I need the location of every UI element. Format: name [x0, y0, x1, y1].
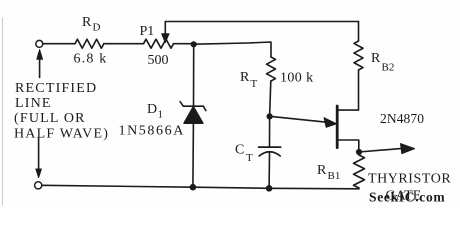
wire RT to node B [270, 81, 271, 116]
potentiometer P1 [144, 39, 174, 48]
capacitor CT [259, 147, 281, 156]
label RB1 [317, 163, 340, 182]
svg-text:C: C [235, 143, 244, 158]
svg-text:SeekIC.com: SeekIC.com [369, 190, 445, 205]
wire node A down to D1 [193, 44, 195, 106]
label D1 [147, 102, 163, 121]
svg-text:T: T [251, 78, 258, 90]
wire P1 to node A [174, 43, 194, 45]
transistor Q1 base bar [336, 106, 339, 148]
svg-text:6.8 k: 6.8 k [74, 52, 108, 67]
wire node B to CT [269, 116, 271, 146]
scan edge line [2, 18, 4, 205]
junction bottom CT [266, 185, 273, 192]
label RB2 [371, 51, 394, 74]
resistor RT [267, 57, 276, 81]
svg-text:LINE: LINE [15, 96, 52, 111]
junction node B [267, 113, 273, 119]
resistor RB2 [354, 41, 363, 70]
svg-text:500: 500 [148, 53, 169, 68]
svg-text:B1: B1 [328, 170, 341, 182]
svg-text:T: T [246, 152, 253, 164]
terminal bottom [35, 182, 42, 189]
svg-text:R: R [371, 51, 381, 66]
svg-text:R: R [240, 70, 250, 85]
emitter arrowhead Q1 [324, 118, 337, 128]
resistor RB1 [354, 155, 365, 188]
terminal top [36, 40, 43, 47]
zener diode D1 [180, 102, 206, 124]
svg-text:1N5866A: 1N5866A [119, 124, 185, 139]
text RECTIFIED LINE [14, 81, 109, 142]
P1 wiper arm [164, 22, 166, 35]
wire top bus [165, 21, 358, 23]
wire top bus down to RB2 [358, 22, 360, 42]
svg-text:100 k: 100 k [280, 71, 314, 86]
svg-text:2N4870: 2N4870 [380, 111, 424, 126]
base-2 lead [337, 70, 358, 110]
svg-text:R: R [82, 15, 92, 30]
svg-text:R: R [317, 163, 327, 178]
wire CT to bottom bus [268, 152, 270, 188]
thyristor gate arrow [359, 148, 402, 152]
svg-text:D: D [147, 102, 157, 117]
wire RD to P1 [104, 43, 144, 45]
svg-text:(FULL OR: (FULL OR [14, 111, 86, 126]
wire bottom bus [42, 185, 359, 189]
svg-text:P1: P1 [140, 24, 155, 39]
wire D1 to bottom bus [192, 123, 195, 187]
base-1 lead [337, 140, 359, 152]
svg-text:THYRISTOR: THYRISTOR [368, 172, 451, 187]
wire emitter from node B [270, 116, 327, 122]
arrow to bottom terminal [38, 138, 40, 170]
label CT [235, 143, 253, 165]
svg-text:D: D [93, 22, 101, 34]
svg-text:HALF WAVE): HALF WAVE) [14, 127, 109, 142]
wire top terminal to RD [43, 43, 75, 45]
junction node C [356, 149, 362, 155]
junction node A [191, 41, 197, 47]
svg-text:RECTIFIED: RECTIFIED [15, 81, 97, 96]
label RD [82, 15, 101, 34]
wire node A to RT [194, 42, 271, 57]
svg-text:1: 1 [158, 109, 164, 121]
svg-text:B2: B2 [382, 62, 395, 74]
arrow to top terminal [39, 59, 41, 78]
label RT [240, 70, 258, 90]
resistor RD [75, 39, 104, 48]
junction bottom D1 [190, 184, 197, 191]
